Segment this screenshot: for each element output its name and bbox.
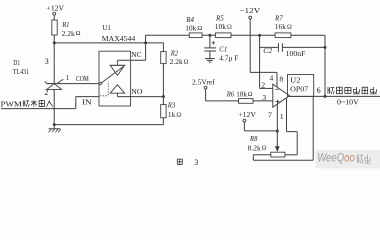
svg-text:+12V: +12V — [238, 110, 256, 119]
svg-text:1: 1 — [66, 74, 70, 82]
resistor R6 — [239, 99, 253, 104]
label PWM input — [1, 100, 53, 109]
resistor R4 — [189, 33, 202, 38]
svg-text:IN: IN — [82, 98, 92, 107]
svg-text:R5: R5 — [215, 13, 224, 22]
svg-text:C1: C1 — [219, 44, 227, 53]
svg-text:PWM: PWM — [1, 100, 22, 109]
svg-text:D1: D1 — [13, 58, 20, 67]
capacitor C1 — [204, 41, 216, 51]
label C2 — [263, 46, 272, 55]
label R4 — [185, 15, 202, 33]
svg-text:2: 2 — [44, 88, 48, 97]
label NC — [131, 50, 141, 59]
svg-text:Ω: Ω — [262, 145, 267, 152]
op-amp U2 triangle — [273, 84, 290, 107]
wire D1 anode down — [53, 89, 55, 124]
wire C2 left lead — [260, 46, 279, 48]
U1 COM pole circle — [99, 82, 101, 84]
terminal 2.5Vref — [192, 77, 215, 89]
label R5 — [215, 13, 232, 31]
output wire — [290, 95, 380, 97]
junction output/feedback — [324, 95, 327, 98]
svg-text:R1: R1 — [61, 20, 69, 29]
wire PWM input — [1, 97, 99, 109]
ground rail — [53, 123, 164, 126]
label R3 — [167, 100, 181, 119]
svg-text:COM: COM — [76, 74, 89, 83]
svg-text:U1: U1 — [102, 23, 111, 32]
svg-text:6: 6 — [317, 86, 321, 95]
label pin 1 / COM — [66, 74, 90, 83]
svg-text:NO: NO — [131, 87, 143, 96]
label pin 3 — [262, 93, 266, 102]
junction C2/feedback — [324, 46, 327, 49]
label output range — [337, 97, 359, 106]
U1 IN control dashed line — [100, 81, 108, 95]
wire feedback — [324, 35, 326, 96]
label R7 — [274, 13, 292, 31]
svg-text:18k: 18k — [236, 90, 247, 99]
capacitor C2 — [278, 43, 282, 52]
label C2 value — [286, 49, 306, 58]
svg-text:R7: R7 — [274, 13, 284, 22]
label U1 — [102, 23, 136, 43]
svg-text:10k: 10k — [215, 22, 226, 31]
svg-text:Ω: Ω — [197, 25, 202, 32]
wire 2.5Vref to R6 — [206, 89, 239, 101]
svg-text:R4: R4 — [185, 15, 194, 24]
label pin 3 of D1 — [45, 57, 49, 66]
label pin 1 — [280, 112, 284, 121]
svg-text:3: 3 — [194, 158, 198, 167]
wire D1 ref to U1 COM — [62, 83, 99, 85]
ground symbol — [49, 125, 61, 133]
svg-text:2.2k: 2.2k — [170, 57, 183, 66]
resistor R5 — [216, 33, 231, 38]
label NO — [131, 87, 143, 96]
potentiometer R8 — [271, 152, 285, 157]
svg-text:3: 3 — [45, 57, 49, 66]
svg-text:R3: R3 — [167, 100, 175, 109]
wire R6 to pin3 — [253, 100, 273, 102]
label pin 2 — [261, 81, 265, 90]
wire R8 wiper — [275, 131, 280, 152]
wire R2 top lead — [162, 43, 164, 52]
junction pin7/+12V/wiper — [276, 130, 279, 133]
svg-text:8: 8 — [279, 74, 283, 83]
wire pin7 stub — [276, 104, 278, 130]
svg-text:16k: 16k — [275, 22, 286, 31]
node junction R1/NC wire — [53, 41, 56, 44]
label C1 — [219, 44, 238, 62]
resistor R3 — [161, 105, 166, 118]
wire NC pin — [117, 35, 145, 60]
svg-text:Ω: Ω — [176, 111, 181, 118]
wire pin2 riser — [259, 35, 261, 88]
wire C1 top lead — [209, 35, 211, 48]
label R1 value — [61, 20, 80, 38]
svg-text:Ω: Ω — [184, 58, 189, 65]
watermark — [316, 150, 380, 169]
svg-text:R6: R6 — [226, 90, 234, 99]
wire R8 left to output — [253, 96, 313, 160]
wire NO pin — [117, 96, 163, 98]
svg-text:100nF: 100nF — [286, 49, 306, 58]
svg-text:NC: NC — [131, 50, 141, 59]
svg-text:Ω: Ω — [287, 23, 292, 30]
label D1 — [13, 58, 30, 76]
resistor R7 — [275, 33, 291, 38]
label pin 2 of D1 — [44, 88, 48, 97]
wire R2 bottom lead — [162, 64, 164, 97]
svg-text:R2: R2 — [170, 48, 178, 57]
svg-text:U2: U2 — [290, 76, 300, 85]
svg-text:Ω: Ω — [248, 91, 253, 98]
svg-text:8.2k: 8.2k — [248, 143, 261, 152]
label R8 — [248, 134, 267, 152]
resistor R1 — [52, 20, 57, 35]
junction NC riser — [144, 41, 147, 44]
ground symbol C1 — [205, 59, 215, 63]
power -12V terminal — [239, 6, 261, 19]
wire C2 right lead — [282, 46, 325, 48]
svg-text:4: 4 — [269, 74, 273, 83]
label pin 8 — [279, 74, 283, 83]
power +12V terminal (top left) — [47, 4, 65, 20]
svg-text:3: 3 — [262, 93, 266, 102]
label R2 — [170, 48, 189, 66]
wire R3 top lead — [162, 97, 164, 105]
svg-text:2.2k: 2.2k — [62, 29, 75, 38]
svg-text:R8: R8 — [249, 134, 257, 143]
svg-text:10k: 10k — [185, 24, 196, 33]
wire R1 bottom to TL431 cathode — [53, 35, 55, 84]
svg-text:C2: C2 — [263, 46, 272, 55]
svg-text:4.7μ F: 4.7μ F — [219, 54, 238, 63]
junction NO/R2/R3 — [162, 95, 165, 98]
svg-text:1k: 1k — [168, 110, 176, 119]
power +12V terminal (mid) — [238, 110, 256, 122]
label pin 4 — [269, 74, 273, 83]
U2 label box — [288, 75, 314, 97]
svg-text:1: 1 — [280, 112, 284, 121]
zener D1 TL431 — [45, 79, 63, 89]
svg-text:0~10V: 0~10V — [337, 97, 359, 106]
wire R3 bottom lead — [162, 118, 164, 125]
label U2 — [290, 76, 308, 94]
wire pin2 stub — [260, 87, 273, 89]
wire top rail — [146, 34, 325, 36]
svg-text:Ω: Ω — [76, 30, 81, 37]
wire node to R2 (horizontal) — [54, 42, 163, 44]
U1 NO contact — [110, 85, 124, 97]
label R6 — [226, 90, 253, 99]
U1 NC contact — [110, 60, 126, 75]
svg-text:Ω: Ω — [227, 23, 232, 30]
label IN — [82, 98, 92, 107]
caption fig 3 — [177, 158, 198, 167]
svg-text:2.5Vref: 2.5Vref — [192, 77, 215, 86]
wire pin1 to R8 right — [285, 99, 297, 155]
label output CN — [328, 87, 377, 94]
wire -12V feed — [250, 19, 277, 87]
junction C1 tap — [208, 34, 211, 37]
resistor R2 — [161, 52, 166, 64]
analog switch U1 box — [99, 51, 131, 106]
svg-text:MAX4544: MAX4544 — [102, 34, 136, 43]
svg-text:OP07: OP07 — [290, 84, 308, 93]
junction pin2 tap — [258, 34, 261, 37]
svg-text:−12V: −12V — [239, 6, 261, 15]
U1 switch lever — [101, 67, 123, 83]
svg-text:+12V: +12V — [47, 4, 65, 13]
label pin 7 — [268, 110, 272, 119]
svg-text:WeeQoo: WeeQoo — [317, 153, 355, 165]
svg-text:TL431: TL431 — [13, 68, 30, 76]
label pin 6 — [317, 86, 321, 95]
wire C1 bottom lead — [209, 51, 211, 59]
wire +12V to pin7 — [244, 122, 277, 131]
svg-text:7: 7 — [268, 110, 272, 119]
